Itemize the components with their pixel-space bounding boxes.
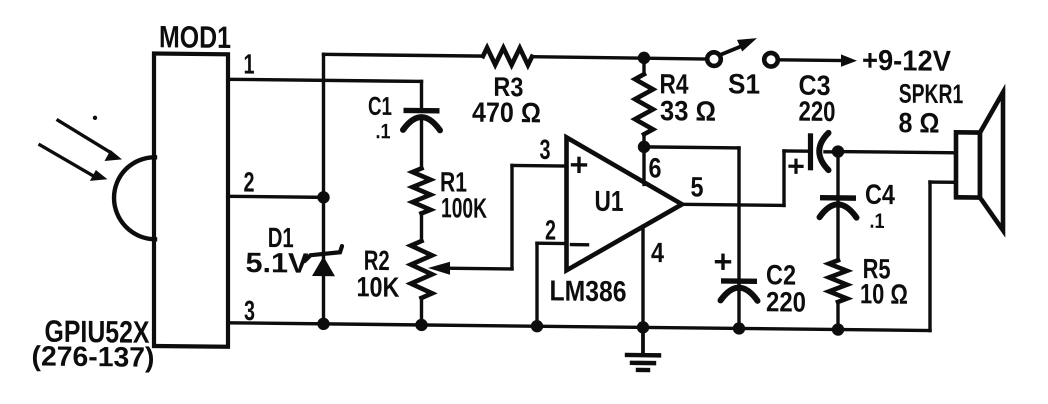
svg-text:1: 1 xyxy=(244,48,255,79)
speaker cone xyxy=(980,92,1003,230)
svg-text:2: 2 xyxy=(545,214,556,245)
resistor R4 xyxy=(635,74,653,134)
svg-text:LM386: LM386 xyxy=(550,275,627,308)
wire C3 to speaker xyxy=(838,152,956,153)
svg-text:10 Ω: 10 Ω xyxy=(860,278,908,310)
wire R4 bottom lead xyxy=(642,134,645,147)
svg-text:8 Ω: 8 Ω xyxy=(899,107,940,138)
resistor R1 xyxy=(413,168,431,213)
wire riser to C3 xyxy=(784,149,807,153)
C3 polarity plus xyxy=(790,165,802,168)
resistor R5 xyxy=(829,260,847,302)
wire ground rail xyxy=(228,323,930,331)
svg-text:33 Ω: 33 Ω xyxy=(660,95,716,127)
ground symbol xyxy=(641,327,645,355)
wire wiper riser to pin3 xyxy=(510,165,513,269)
wire pin 2 stub xyxy=(537,242,566,246)
svg-text:C4: C4 xyxy=(865,179,895,210)
wire R5 to ground rail xyxy=(836,302,839,330)
node pin4/rail xyxy=(637,321,649,334)
svg-text:MOD1: MOD1 xyxy=(159,19,231,55)
IR ray arrow 1 xyxy=(58,120,109,151)
svg-text:5.1V: 5.1V xyxy=(246,247,309,279)
wire output riser xyxy=(782,151,785,206)
svg-text:100K: 100K xyxy=(441,192,487,224)
wire R2 bottom to ground rail xyxy=(420,298,423,325)
node C3/speaker junction xyxy=(832,145,844,158)
capacitor C1 xyxy=(404,108,440,114)
svg-text:3: 3 xyxy=(540,134,551,165)
svg-text:5: 5 xyxy=(691,171,704,202)
wire pin 2 to ground rail xyxy=(535,243,538,326)
IR ray arrow 2 xyxy=(40,145,94,176)
svg-text:C1: C1 xyxy=(368,91,392,121)
svg-text:SPKR1: SPKR1 xyxy=(899,79,964,110)
potentiometer R2 xyxy=(411,241,432,298)
svg-text:U1: U1 xyxy=(595,186,624,218)
resistor R3 xyxy=(483,48,532,66)
switch S1 lever arm xyxy=(721,46,743,55)
svg-text:S1: S1 xyxy=(728,68,760,99)
capacitor C3 xyxy=(808,133,813,170)
wire C2 top lead xyxy=(737,148,740,281)
wire C2 bottom lead xyxy=(737,285,740,328)
svg-text:.1: .1 xyxy=(870,210,885,233)
capacitor C2 xyxy=(721,278,757,284)
U1 plus input mark xyxy=(573,163,586,167)
IR module MOD1 body xyxy=(154,53,228,346)
wire pin 3 stub xyxy=(512,164,566,168)
wire pin 6 riser xyxy=(642,147,645,185)
switch S1 contact 1 xyxy=(707,52,721,66)
svg-text:220: 220 xyxy=(799,96,836,127)
wire pin 5 output xyxy=(682,204,784,205)
wire C3 arc to junction xyxy=(825,150,838,154)
svg-text:+9-12V: +9-12V xyxy=(862,45,952,78)
wire C1 to R1 xyxy=(420,117,423,168)
C2 polarity plus xyxy=(717,260,730,264)
node pin2/rail xyxy=(531,320,543,333)
speaker SPKR1 body xyxy=(956,132,980,197)
svg-text:220: 220 xyxy=(766,286,806,317)
wire C4 to R5 xyxy=(836,202,839,260)
svg-text:4: 4 xyxy=(651,237,664,268)
wire to supply arrow xyxy=(779,58,844,62)
wire pin6 node to C2 xyxy=(644,147,739,148)
node pin2/D1 junction xyxy=(317,191,329,204)
speck artifact xyxy=(93,116,97,120)
wire top rail right of R3 xyxy=(532,57,707,59)
wire pin 4 to ground rail xyxy=(641,226,644,327)
node D1/rail xyxy=(317,318,329,331)
wire speaker return riser xyxy=(928,182,931,331)
svg-text:6: 6 xyxy=(649,152,662,183)
wire top rail left of R3 xyxy=(324,54,484,56)
wire R1 to R2 xyxy=(420,213,423,241)
node pin6 junction xyxy=(638,141,650,154)
node R5/rail xyxy=(832,323,844,336)
U1 minus input mark xyxy=(572,243,588,247)
wire supply vertical (rail to ground through D1) xyxy=(322,54,325,324)
svg-text:10K: 10K xyxy=(357,271,400,302)
zener diode D1 xyxy=(312,256,335,276)
svg-text:.1: .1 xyxy=(375,120,390,143)
wire C4 top lead xyxy=(836,152,839,198)
R2 wiper arrow xyxy=(446,267,512,271)
wire R4 top lead xyxy=(642,58,645,74)
svg-text:2: 2 xyxy=(244,166,255,197)
svg-text:(276-137): (276-137) xyxy=(32,340,155,372)
wire pin2 to supply node xyxy=(228,196,324,197)
MOD1 lens dome xyxy=(114,157,155,239)
switch S1 contact 2 xyxy=(764,53,778,67)
node rail/R4 junction xyxy=(638,52,650,65)
wire riser to speaker xyxy=(930,180,956,184)
svg-text:470 Ω: 470 Ω xyxy=(472,97,541,129)
node R2/rail xyxy=(415,319,427,332)
node C2/rail xyxy=(733,322,745,335)
op-amp U1 triangle xyxy=(567,137,683,271)
wire pin1 to C1 top corner xyxy=(228,79,422,81)
capacitor C4 xyxy=(820,195,856,201)
